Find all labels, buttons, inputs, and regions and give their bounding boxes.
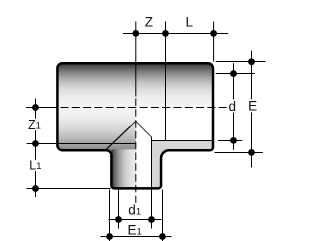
- bore/wall edge in branch: [151, 137, 153, 187]
- extension line d1 left: [118, 190, 120, 229]
- dot E top: [248, 58, 255, 65]
- fillet funnel line left outer: [104, 126, 130, 151]
- svg-text:Z: Z: [145, 15, 153, 30]
- dot L right: [210, 30, 217, 37]
- label d: [227, 99, 237, 112]
- dimension line Z L (top): [123, 33, 228, 35]
- extension line bottom of branch (left): [27, 188, 111, 190]
- section wall (light gray L-shape): [152, 140, 212, 187]
- extension line E1 left: [109, 190, 111, 241]
- dot L1 bottom: [32, 185, 39, 192]
- dimension line Z1 L1 (left): [35, 99, 37, 198]
- fillet funnel line right: [136, 121, 152, 137]
- dot E bottom: [248, 149, 255, 156]
- dot Z1 bottom / L1 top: [32, 140, 39, 147]
- svg-text:L1: L1: [29, 159, 41, 173]
- extension line E bottom: [215, 152, 263, 154]
- label Z1: [27, 119, 40, 131]
- dot Z right / L left: [162, 30, 169, 37]
- dot Z left: [132, 30, 139, 37]
- dot d1 left: [115, 216, 122, 223]
- svg-text:E: E: [248, 99, 257, 114]
- svg-text:L: L: [185, 15, 193, 30]
- dimension line E1: [101, 236, 172, 238]
- dot d1 right: [148, 216, 155, 223]
- socket bottom line (branch): [27, 143, 137, 145]
- svg-text:Z1: Z1: [28, 118, 41, 132]
- label E: [247, 99, 257, 112]
- dimension line d: [233, 63, 235, 150]
- dimension line d1: [109, 219, 162, 221]
- tee fitting silhouette fill: [57, 63, 213, 188]
- label L1: [28, 160, 40, 171]
- dot d top: [230, 70, 237, 77]
- fillet funnel line left: [107, 121, 136, 149]
- dimension line E: [251, 51, 253, 168]
- vertical centerline: [135, 99, 137, 204]
- extension line E top: [216, 61, 266, 63]
- extension line d bottom: [218, 140, 242, 142]
- tee outline: [57, 63, 213, 188]
- svg-text:d: d: [229, 99, 237, 114]
- extension line body right edge (top): [213, 22, 215, 62]
- horizontal centerline: [26, 107, 58, 109]
- dot Z1 top: [32, 104, 39, 111]
- extension line E1 right: [162, 190, 164, 241]
- section bore (white): [136, 108, 212, 188]
- section wall top edge: [152, 140, 212, 142]
- branch outlet exterior gradient (left half): [112, 149, 136, 187]
- socket depth line (right arm): [165, 22, 167, 141]
- dot d bottom: [230, 137, 237, 144]
- extension line branch centerline (top): [135, 22, 137, 97]
- dot E1 left: [106, 233, 113, 240]
- extension line d top: [216, 73, 255, 75]
- dot E1 right: [159, 233, 166, 240]
- extension line d1 right: [151, 190, 153, 229]
